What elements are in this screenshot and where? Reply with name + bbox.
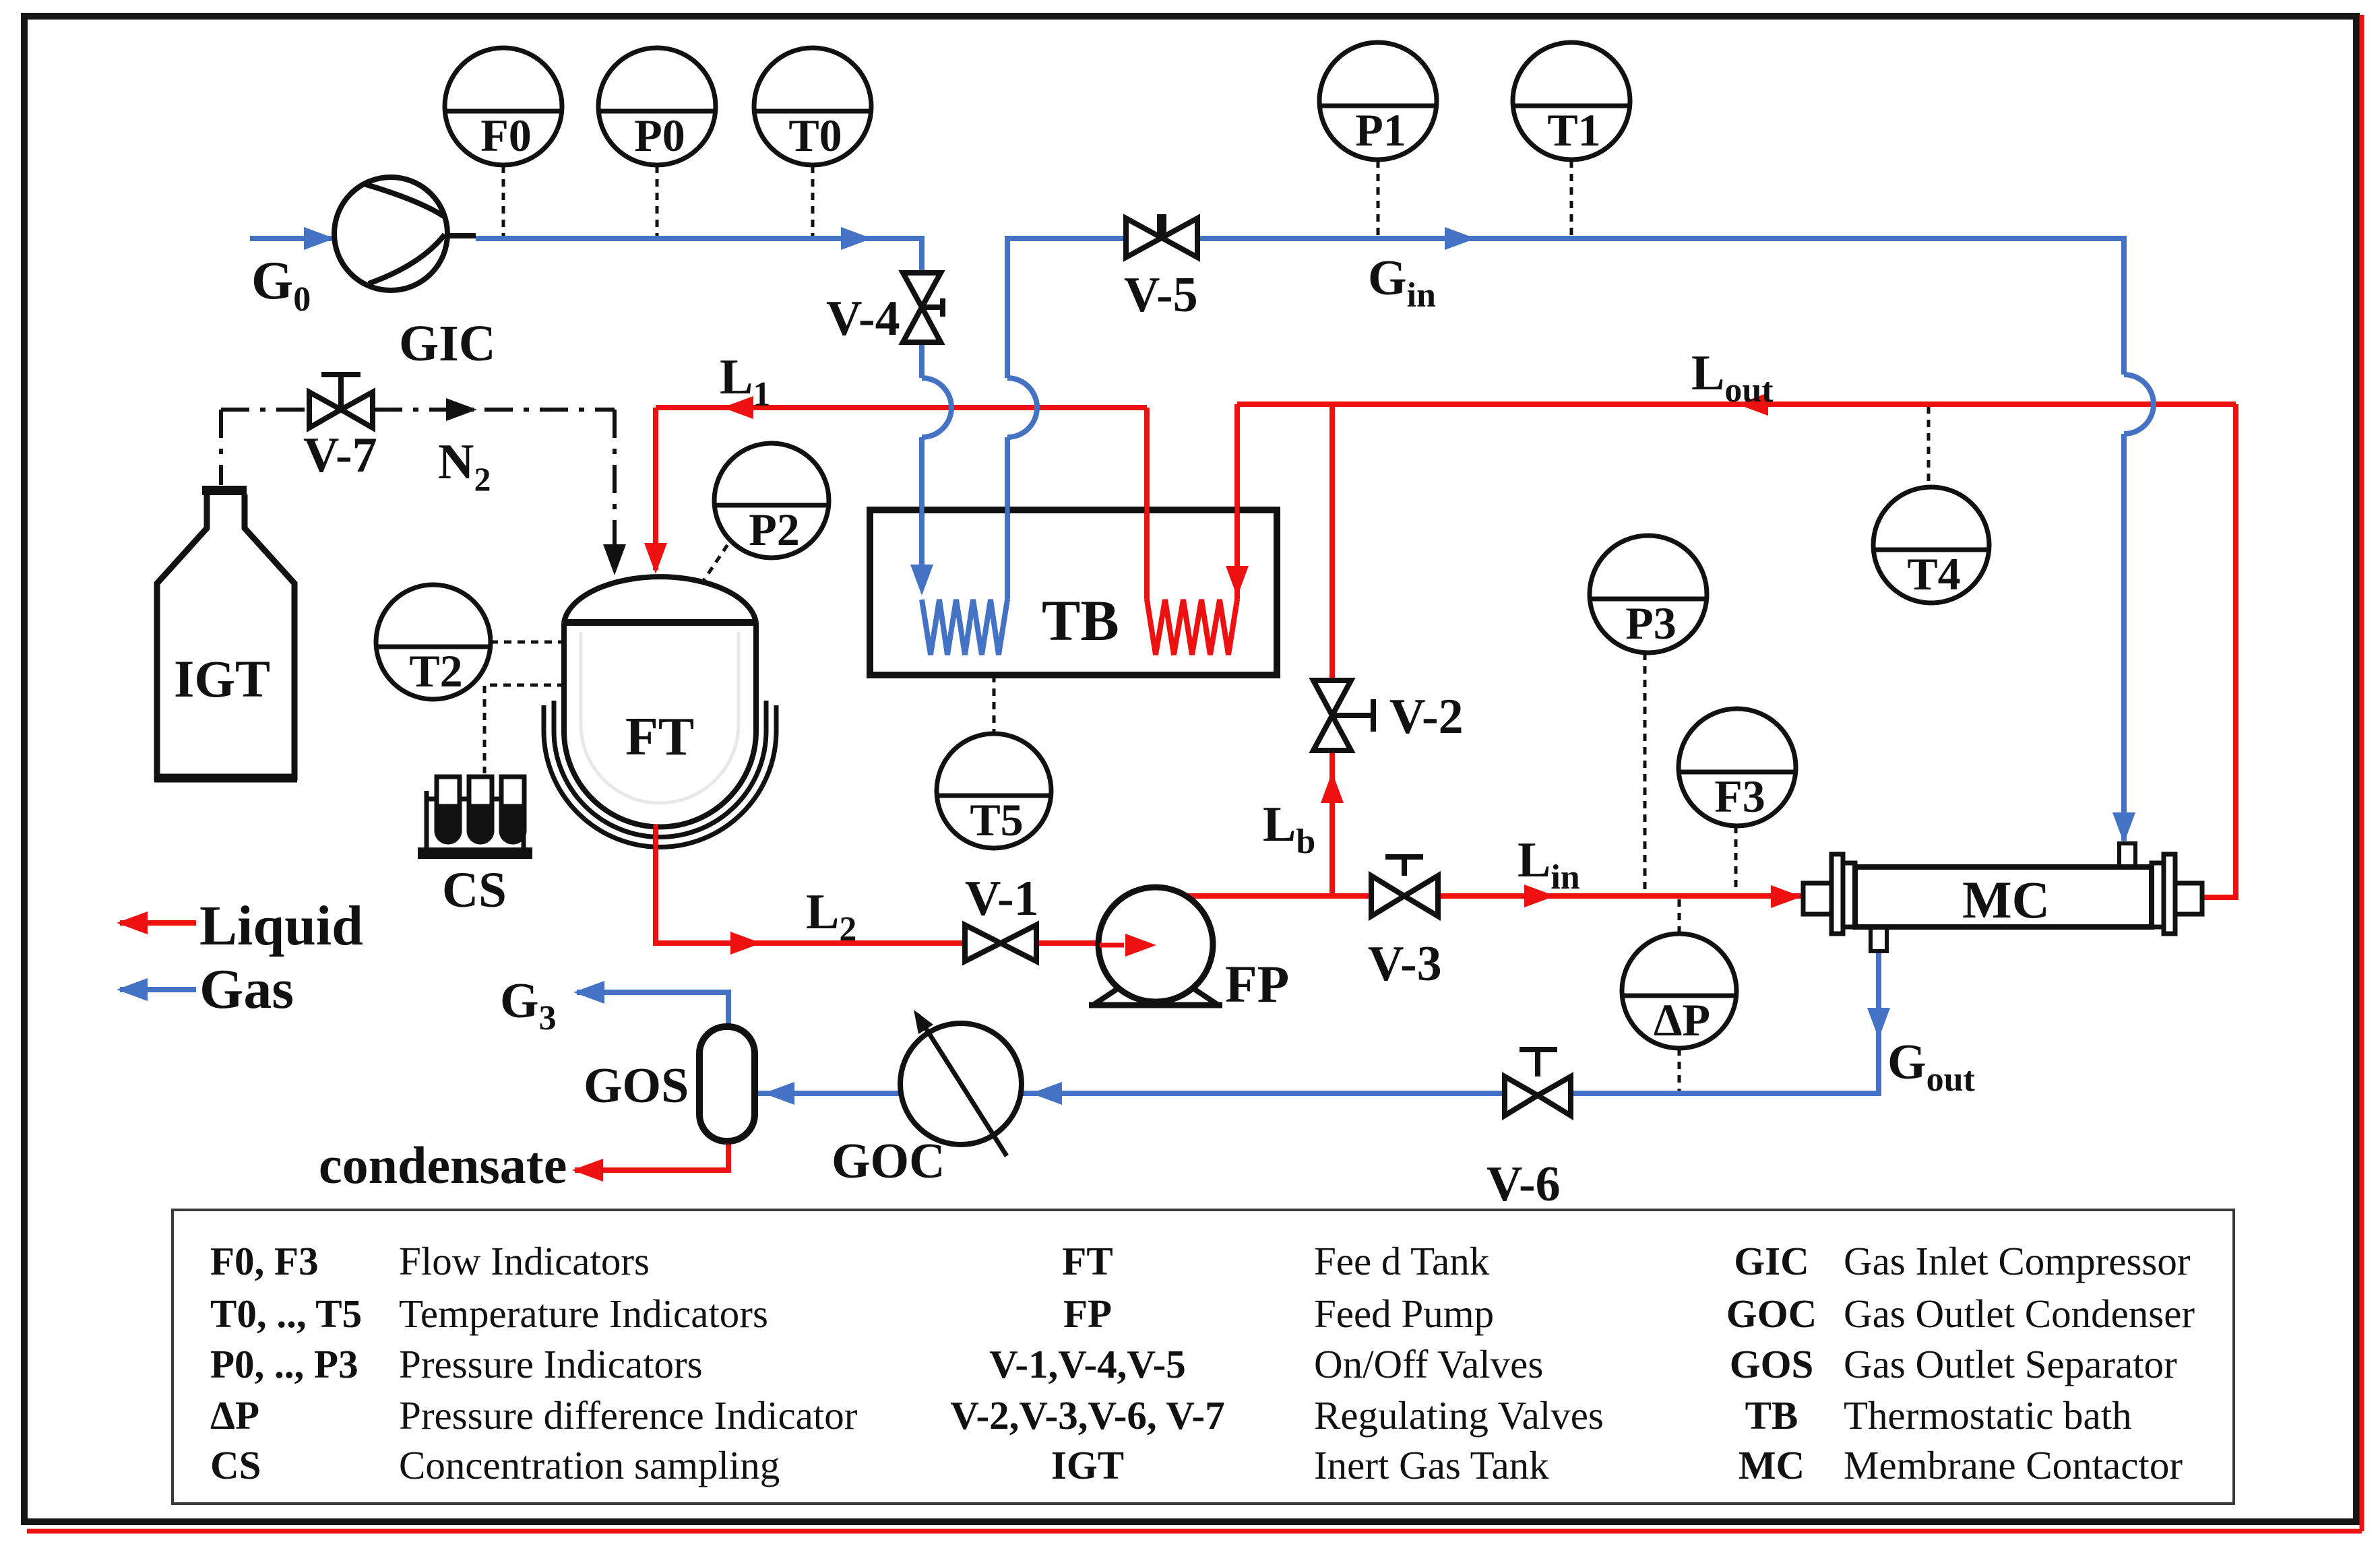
wire TB red coil feed right [1234, 404, 1240, 600]
wire G0 inlet [250, 236, 332, 241]
arrow N2 down onto FT [603, 544, 626, 575]
svg-text:P2: P2 [749, 504, 800, 555]
svg-text:Flow Indicators: Flow Indicators [399, 1239, 650, 1283]
arrow down into TB coil [1226, 566, 1249, 597]
svg-text:IGT: IGT [174, 649, 270, 708]
stem T2 [491, 641, 565, 644]
arrow Gout down [1867, 1008, 1890, 1039]
svg-text:V-1,V-4,V-5: V-1,V-4,V-5 [989, 1342, 1186, 1386]
valve V-2 [1313, 680, 1373, 750]
instrument P2 [714, 443, 829, 558]
svg-text:GOC: GOC [832, 1134, 945, 1189]
arrow L2 right [730, 932, 761, 955]
wire N2 left segment [221, 408, 308, 412]
wire V-5 to MC drop corner [1197, 238, 2124, 375]
feed tank FT [544, 577, 776, 847]
arrow after V-5 [1445, 227, 1476, 250]
svg-text:MC: MC [1962, 870, 2050, 929]
svg-text:V-2: V-2 [1389, 689, 1464, 744]
svg-text:V-6: V-6 [1486, 1157, 1561, 1212]
svg-text:Gas Inlet Compressor: Gas Inlet Compressor [1844, 1239, 2191, 1283]
svg-text:T5: T5 [970, 794, 1023, 845]
svg-text:Gas Outlet Separator: Gas Outlet Separator [1844, 1342, 2177, 1386]
arrow Lin mid [1524, 885, 1555, 907]
legend gas sample line [120, 987, 196, 992]
vessel dome [564, 577, 756, 622]
legend box frame [173, 1210, 2234, 1504]
stem CS [484, 685, 565, 773]
blue cooling coil in TB [922, 600, 1007, 655]
wire pump outlet / Lin [1178, 893, 1803, 899]
arrow G0 into GIC [304, 227, 335, 250]
svg-text:Feed Pump: Feed Pump [1314, 1291, 1494, 1336]
wire main gas line to V-4 corner [476, 238, 922, 378]
red accent line right border [2360, 15, 2365, 1531]
thermostatic bath TB [870, 510, 1277, 675]
svg-text:condensate: condensate [319, 1136, 567, 1194]
svg-text:V-3: V-3 [1368, 936, 1442, 992]
svg-text:Pressure Indicators: Pressure Indicators [399, 1342, 703, 1386]
wire Lout horizontal [1237, 401, 2236, 407]
wire L1 horizontal [656, 405, 1147, 410]
svg-text:TB: TB [1042, 588, 1119, 653]
arrow down into TB blue coil [910, 565, 933, 596]
wire blue V-4 branch over TB border [920, 495, 925, 525]
svg-text:Regulating Valves: Regulating Valves [1314, 1393, 1604, 1438]
stem P0 [656, 166, 659, 236]
svg-text:IGT: IGT [1051, 1443, 1124, 1487]
gas outlet separator GOS [699, 1027, 755, 1141]
svg-text:T1: T1 [1547, 104, 1600, 156]
arrow into MC left nozzle [1771, 885, 1802, 908]
svg-text:ΔP: ΔP [210, 1393, 259, 1438]
svg-text:Fee d Tank: Fee d Tank [1314, 1239, 1490, 1283]
stem dP bottom [1678, 1048, 1681, 1091]
svg-text:T0, .., T5: T0, .., T5 [210, 1291, 362, 1336]
svg-text:P1: P1 [1355, 104, 1406, 156]
arrow down into MC top [2112, 812, 2135, 843]
wire N2 to IGT [219, 410, 223, 485]
stem dP top [1678, 899, 1681, 934]
wire red coil feed right over TB border [1235, 495, 1240, 525]
red arrowheads [117, 393, 1802, 1182]
stem F3 [1734, 826, 1738, 895]
svg-text:P3: P3 [1625, 598, 1677, 649]
hop over L1 (V-4 branch) [922, 378, 951, 437]
inert gas tank IGT [154, 486, 297, 778]
svg-text:F0: F0 [480, 110, 532, 161]
jacket inner arc [554, 701, 766, 837]
wire L2 from FT bottom [656, 826, 1152, 943]
instrument dP [1622, 934, 1736, 1048]
arrow G3 left [573, 981, 604, 1004]
hop over L1 (return riser) [1007, 378, 1037, 437]
svg-text:FT: FT [1062, 1239, 1113, 1283]
svg-text:P0, .., P3: P0, .., P3 [210, 1342, 358, 1386]
svg-text:Liquid: Liquid [199, 895, 363, 957]
arrow into FP pump [1125, 933, 1156, 956]
svg-text:Temperature Indicators: Temperature Indicators [399, 1291, 768, 1336]
svg-text:T0: T0 [788, 110, 842, 161]
gas outlet condenser GOC [900, 1010, 1022, 1156]
stem T4 [1927, 406, 1931, 487]
stem P2 [701, 540, 731, 585]
svg-text:F0, F3: F0, F3 [210, 1239, 319, 1283]
compressor GIC [334, 177, 476, 290]
svg-text:Concentration sampling: Concentration sampling [399, 1443, 780, 1487]
valve V-7 [309, 375, 373, 428]
wire V-6 to GOC [1022, 1091, 1503, 1096]
stem P3 [1643, 653, 1647, 895]
wire Lb vertical through V-2 [1329, 404, 1335, 896]
instrument T5 [937, 734, 1051, 848]
concentration sampling CS rack [418, 777, 532, 859]
arrow legend Gas [117, 978, 148, 1001]
arrow into FT top [644, 543, 667, 574]
svg-text:TB: TB [1745, 1393, 1798, 1438]
svg-text:V-2,V-3,V-6, V-7: V-2,V-3,V-6, V-7 [950, 1393, 1224, 1438]
instrument F3 [1679, 709, 1796, 826]
instrument T1 [1513, 42, 1630, 160]
wire red coil feed left over TB border [1145, 495, 1150, 525]
blue arrowheads [117, 227, 2135, 1105]
instrument F0 [445, 48, 562, 165]
valve V-6 [1505, 1050, 1571, 1116]
hop over Lout [2124, 375, 2154, 434]
svg-text:GOS: GOS [584, 1058, 689, 1114]
wire V-4 branch into TB [919, 437, 925, 565]
wire TB red coil feed left [1144, 408, 1150, 600]
wire blue riser over TB border [1005, 495, 1010, 525]
membrane contactor MC [1803, 843, 2202, 951]
instrument T0 [754, 48, 871, 165]
svg-text:GIC: GIC [399, 315, 496, 372]
red heating coil in TB [1147, 600, 1237, 655]
legend liquid sample line [120, 920, 196, 926]
stem T5 [993, 675, 996, 734]
svg-text:GOS: GOS [1730, 1342, 1814, 1386]
instrument P0 [598, 48, 716, 165]
instrument P1 [1319, 42, 1437, 160]
stem F0 [502, 166, 505, 236]
legend key col2 [950, 1239, 1224, 1487]
arrow into GOS [763, 1082, 794, 1105]
stem T1 [1570, 160, 1573, 236]
vessel body [564, 622, 756, 827]
wire L1 drop to FT [653, 408, 658, 570]
arrow into FP pump (over circle) [1100, 934, 1156, 957]
instrument T2 [376, 585, 491, 699]
svg-text:Thermostatic bath: Thermostatic bath [1844, 1393, 2132, 1438]
instrument T4 [1873, 487, 1989, 603]
svg-text:FP: FP [1063, 1291, 1112, 1336]
wire GOS top to G3 [577, 992, 728, 1027]
wire N2 drop to FT [613, 410, 617, 547]
arrow Lb up [1321, 772, 1344, 803]
svg-text:On/Off Valves: On/Off Valves [1314, 1342, 1543, 1386]
stem T0 [811, 166, 815, 236]
wire N2 valve to corner [374, 408, 615, 412]
arrow condensate left [572, 1159, 603, 1182]
faint inner vessel outline [581, 632, 739, 803]
svg-text:P0: P0 [634, 110, 685, 161]
jacket outer arc [544, 705, 776, 847]
arrow L1 left [722, 396, 753, 419]
wire Lout right drop [2198, 404, 2236, 897]
svg-text:Inert Gas Tank: Inert Gas Tank [1314, 1443, 1549, 1487]
wire overdraws where colored lines cross black component outlines [656, 495, 1237, 868]
svg-text:FT: FT [625, 707, 694, 767]
svg-text:Gas: Gas [199, 958, 294, 1021]
instrument P3 [1590, 536, 1707, 653]
arrow into GOC [1031, 1082, 1062, 1105]
legend key col3 [1726, 1239, 1817, 1487]
valve V-3 [1371, 857, 1438, 916]
svg-text:CS: CS [210, 1443, 261, 1487]
svg-text:V-5: V-5 [1124, 267, 1198, 323]
svg-text:T2: T2 [409, 645, 462, 697]
arrow main line mid [841, 227, 872, 250]
svg-text:T4: T4 [1907, 548, 1960, 600]
red accent line bottom border [27, 1529, 2362, 1534]
wire riser to V-5 line [1007, 238, 1126, 378]
svg-text:MC: MC [1739, 1443, 1805, 1487]
wire GOC to GOS [757, 1091, 900, 1096]
svg-text:GIC: GIC [1734, 1239, 1809, 1283]
wire Gout from MC bottom [1573, 950, 1879, 1093]
wire condensate [575, 1141, 728, 1170]
svg-text:GOC: GOC [1726, 1291, 1817, 1336]
svg-text:Membrane Contactor: Membrane Contactor [1844, 1443, 2183, 1487]
wire L2 over FT jacket [654, 825, 658, 868]
arrow N2 right [446, 398, 477, 421]
feed pump FP [1089, 887, 1222, 1005]
vessel top chord [563, 619, 757, 626]
svg-text:V-4: V-4 [826, 291, 900, 346]
wire TB return riser [1005, 437, 1010, 600]
svg-text:CS: CS [442, 862, 507, 918]
svg-text:V-1: V-1 [965, 871, 1039, 926]
svg-text:Gas Outlet Condenser: Gas Outlet Condenser [1844, 1291, 2195, 1336]
wire gas drop into MC top [2121, 434, 2127, 841]
svg-text:V-7: V-7 [303, 428, 377, 483]
svg-text:F3: F3 [1714, 771, 1765, 822]
arrow legend Liquid [117, 911, 148, 934]
valve V-4 [903, 273, 943, 342]
stem P1 [1377, 160, 1380, 236]
arrow Lout left [1737, 393, 1768, 416]
svg-text:ΔP: ΔP [1654, 994, 1710, 1046]
valve V-1 [965, 925, 1036, 961]
svg-text:FP: FP [1225, 955, 1289, 1013]
svg-text:Pressure difference Indicator: Pressure difference Indicator [399, 1393, 858, 1438]
valve V-5 [1126, 214, 1197, 257]
